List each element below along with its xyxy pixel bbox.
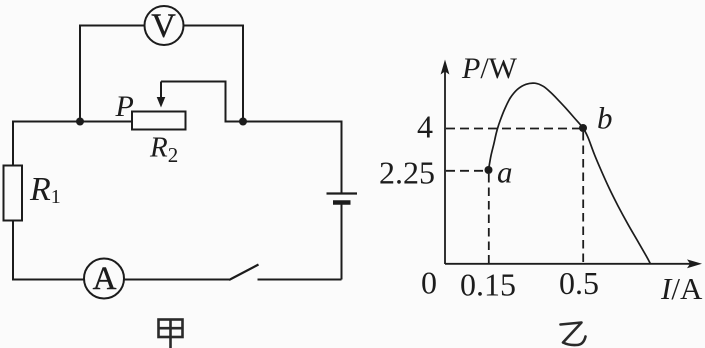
svg-text:P: P	[115, 90, 134, 123]
svg-text:0: 0	[421, 265, 437, 301]
wire: battery negative down to bottom rail	[341, 205, 343, 280]
svg-text:4: 4	[417, 109, 433, 145]
svg-text:b: b	[597, 101, 613, 136]
svg-text:V: V	[151, 8, 176, 45]
switch blade (open)	[229, 265, 259, 281]
dashed line: P=2.25 horizontal to point a	[446, 170, 484, 172]
node: left junction dot	[76, 118, 84, 126]
wire: ammeter to switch pivot	[124, 279, 229, 281]
wire: right node to right rail corner	[243, 122, 342, 194]
battery: long positive plate	[327, 192, 358, 194]
battery: short negative plate	[333, 200, 351, 205]
wire: voltmeter right lead down to right node	[184, 26, 244, 122]
wire: voltmeter left lead down to left node	[80, 26, 145, 122]
ammeter A	[84, 259, 124, 299]
rheostat R2 body	[132, 112, 186, 130]
voltmeter V	[145, 6, 184, 45]
svg-text:P/W: P/W	[461, 52, 518, 85]
wire: R1 bottom to bottom-left corner to ammeter	[13, 221, 84, 280]
svg-text:I/A: I/A	[660, 271, 703, 306]
caption 甲 (figure 1) drawn as strokes	[159, 320, 183, 348]
dashed line: vertical from point a to I=0.15	[488, 174, 490, 263]
svg-text:a: a	[497, 155, 513, 190]
dashed line: vertical from point b to I=0.5	[582, 132, 584, 263]
dashed line: P=4 horizontal to point b	[446, 128, 583, 130]
node: right junction dot	[239, 118, 247, 126]
resistor R1 body	[4, 166, 23, 221]
x-axis I/A	[445, 259, 702, 268]
wire: top rail from left corner through left node to R2 left terminal	[13, 121, 132, 123]
svg-text:0.15: 0.15	[460, 267, 516, 303]
wire: switch right contact to bottom-right corner	[258, 279, 342, 281]
point a dot	[485, 166, 493, 174]
svg-text:A: A	[93, 261, 117, 297]
svg-text:2.25: 2.25	[379, 155, 435, 191]
P-I curve	[489, 83, 651, 263]
slider arrow of rheostat (wiper P)	[157, 82, 166, 108]
caption 乙 (figure 2) drawn as strokes	[561, 323, 586, 346]
point b dot	[579, 124, 587, 132]
wire: left rail down to R1	[12, 121, 14, 166]
y-axis P/W	[441, 60, 450, 265]
svg-text:0.5: 0.5	[559, 265, 599, 301]
wire: wiper up and over to right node	[161, 82, 243, 122]
